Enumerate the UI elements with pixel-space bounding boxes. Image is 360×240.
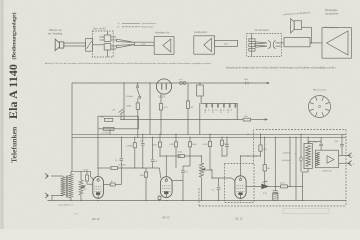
- connector pin wire d: [111, 39, 116, 41]
- wire bus drop to ground: [301, 186, 303, 200]
- svg-text:(Bedienungsanlage): (Bedienungsanlage): [11, 12, 18, 59]
- svg-text:Sprechleitungen: Sprechleitungen: [142, 22, 156, 25]
- wire grid V3 diagonal: [232, 178, 236, 181]
- svg-text:50kΩ: 50kΩ: [192, 144, 197, 146]
- wire output upper: [339, 154, 349, 156]
- wire grid V2 down: [145, 183, 147, 201]
- arc over arrow: [263, 181, 268, 182]
- svg-text:LP 3/1: LP 3/1: [159, 97, 166, 99]
- capacitor 0,1 grid V3: [217, 187, 221, 189]
- resistor screen V3: [264, 162, 266, 165]
- svg-text:Mikrofon mit: Mikrofon mit: [49, 29, 62, 32]
- wire cap 01 bottom: [218, 190, 220, 200]
- wire x301 lower: [300, 161, 302, 172]
- wire primary top: [307, 137, 309, 143]
- dashed box Vst 42: [247, 34, 282, 57]
- wire pot2 top: [201, 156, 203, 163]
- wire cable to speakers: [284, 37, 310, 46]
- wire B+ bus b: [287, 185, 302, 187]
- wire anode supply rail: [72, 133, 346, 135]
- svg-text:Telefunken: Telefunken: [10, 126, 19, 163]
- svg-text:200Ω: 200Ω: [126, 106, 131, 108]
- winding output: [306, 146, 311, 167]
- svg-text:EL 12: EL 12: [236, 217, 243, 221]
- wire terminal to ground: [51, 196, 53, 201]
- main speaker triangle: [327, 31, 348, 55]
- resistor R9: [221, 137, 223, 140]
- wire dashed shield left: [198, 188, 200, 206]
- resistor cathode V2: [159, 195, 161, 196]
- svg-text:def. Verstärkg.: def. Verstärkg.: [48, 32, 63, 35]
- resistor 0,1M: [134, 137, 136, 142]
- tone wiper: [202, 168, 206, 170]
- resistor meter shunt: [160, 94, 162, 103]
- wire pot top: [80, 171, 82, 180]
- winding secondary: [69, 174, 74, 198]
- wire V2 anode up: [165, 156, 167, 177]
- fuse bubble output: [300, 157, 302, 161]
- wire V1 anode feed: [97, 129, 99, 168]
- wire dashed shield bottom: [199, 205, 346, 207]
- wire elko top: [274, 186, 276, 190]
- wire sec top stub: [70, 171, 72, 174]
- svg-text:b: b: [353, 164, 354, 166]
- wire into tube grid: [90, 171, 92, 176]
- arrow B+ feed: [262, 184, 269, 189]
- amp A triangle: [163, 39, 171, 52]
- connector pin wire e: [111, 45, 116, 47]
- wire V1 side lead: [103, 184, 110, 186]
- transformer core box: [304, 144, 312, 169]
- capacitor filter C8: [273, 190, 278, 192]
- wire 5000 bottom: [86, 181, 88, 184]
- wire C5 link: [183, 165, 190, 167]
- wire screen V3 drop: [264, 137, 266, 162]
- dashed shield tube V3: [225, 164, 255, 203]
- wire drop x342 upper: [341, 134, 343, 144]
- wire drop x138: [137, 120, 139, 138]
- amplifier box B: [194, 36, 215, 54]
- svg-text:50k: 50k: [267, 168, 270, 170]
- svg-text:Abwicklung der Anlage nach dem: Abwicklung der Anlage nach dem Umbau; sä…: [226, 67, 336, 70]
- amp B triangle: [204, 38, 212, 51]
- capacitor 50u: [141, 143, 145, 145]
- wire left frame vertical: [71, 83, 73, 171]
- heater filament chain: [201, 96, 237, 120]
- monitor speaker driver: [294, 21, 301, 30]
- svg-text:4Ω: 4Ω: [191, 107, 194, 109]
- svg-text:a 2: a 2: [265, 181, 268, 183]
- tube V1 EF12: [93, 177, 104, 199]
- tube socket top view: [309, 96, 331, 118]
- amplifier box A: [154, 37, 174, 55]
- wire V2 side right: [172, 179, 183, 181]
- wire drop x188: [187, 120, 189, 135]
- capacitor C 50: [120, 158, 124, 160]
- wire anode V3 right: [241, 155, 261, 157]
- wire R7 low: [189, 160, 191, 166]
- signal arrow lower: [117, 45, 135, 48]
- tube V3 EL12: [235, 176, 246, 199]
- wire inner vertical Vst box: [251, 34, 253, 57]
- monitor speaker cone: [291, 19, 295, 33]
- svg-text:1MΩ: 1MΩ: [140, 175, 145, 177]
- resistor choke Dr: [281, 185, 288, 188]
- svg-text:2kΩ: 2kΩ: [100, 117, 104, 119]
- wire plug out lower: [276, 45, 282, 47]
- svg-text:~ 30k: ~ 30k: [140, 44, 146, 46]
- wire drop x124: [123, 83, 125, 120]
- capacitor tilted: [119, 109, 125, 114]
- dashed box Vorverstaerker: [92, 31, 113, 57]
- wire anode V1 right: [98, 167, 111, 169]
- wire fuse top: [137, 83, 139, 86]
- capacitor coupling C1: [111, 167, 117, 170]
- core line 2: [67, 176, 69, 198]
- wire drop x161: [160, 120, 162, 135]
- wire primary bottom: [307, 169, 309, 173]
- arrow to plug lower: [255, 45, 267, 47]
- wire box1 to connector: [93, 44, 104, 46]
- matching triangle: [327, 156, 334, 163]
- resistor 50k: [159, 134, 161, 142]
- wire drop x121: [120, 137, 122, 158]
- pilot lamp box: [197, 85, 204, 96]
- wire V3 to B+ arrow: [246, 185, 261, 187]
- plug jaw right: [273, 40, 275, 49]
- wire dashed enclosure left upper: [253, 130, 255, 164]
- wire +300V top rail: [72, 82, 267, 84]
- box heater rail meter: [243, 118, 250, 121]
- wire x301 upper: [300, 134, 302, 157]
- pot wiper arrow: [81, 186, 85, 188]
- resistor 200 ohm dropper: [137, 98, 139, 103]
- resistor grid V2: [145, 168, 147, 172]
- wire 5000 top: [86, 171, 88, 175]
- wire secondary top to right: [310, 141, 322, 143]
- svg-text:µ/2x50µF: µ/2x50µF: [282, 160, 291, 162]
- wire grid V3: [212, 177, 232, 179]
- wire C5 top: [182, 166, 184, 170]
- wire grid V3 drop: [211, 170, 213, 178]
- wire anode V2 right: [166, 155, 181, 157]
- wire wiper to grid V3: [202, 169, 213, 171]
- wire join C6: [222, 155, 227, 157]
- capacitor electrolytic block: [273, 193, 278, 200]
- wire primary bottom link: [302, 171, 308, 173]
- wire secondary top bend: [308, 142, 309, 144]
- wire pot bottom: [80, 195, 82, 201]
- connector pin wire b: [100, 39, 105, 41]
- wire heater rail arrow stub: [251, 119, 265, 121]
- potentiometer tone: [199, 163, 203, 177]
- arrow top rail end: [267, 82, 270, 84]
- tick top rail a: [245, 82, 247, 85]
- resistor network Rb: [103, 127, 114, 130]
- wire R6 bottom: [175, 150, 177, 168]
- relay contact box 2: [249, 44, 255, 47]
- capacitor coupling C4: [178, 155, 184, 158]
- wire pilot down: [200, 95, 202, 97]
- svg-text:0,1MΩ: 0,1MΩ: [126, 145, 132, 147]
- wire join: [160, 155, 166, 157]
- wire C5 bottom: [182, 173, 184, 200]
- wire cap50 top: [142, 134, 144, 143]
- stamp box faint: [283, 209, 329, 214]
- preamp box diagonal: [87, 41, 92, 49]
- connector top stub: [107, 31, 109, 35]
- legend line b rule: [122, 26, 140, 28]
- capacitor C6: [225, 144, 229, 146]
- wire drop x150: [149, 83, 151, 134]
- svg-text:µF 5000: µF 5000: [119, 165, 127, 167]
- output terminal upper: [348, 153, 352, 158]
- svg-text:Achtung! Läßt sich der Verstär: Achtung! Läßt sich der Verstärker nicht …: [45, 62, 211, 65]
- wire grid V2 diagonal: [160, 168, 161, 178]
- wire B+ bus a: [269, 185, 281, 187]
- wire drop x152: [152, 137, 154, 159]
- svg-text:0,3M: 0,3M: [169, 144, 174, 146]
- capacitor out a: [319, 143, 323, 145]
- connector lower contact: [104, 44, 111, 50]
- wire B+ feed x290: [289, 137, 291, 186]
- wire cable amp B to connector: [215, 40, 238, 46]
- wire coupling to grid V2: [117, 167, 146, 169]
- wire grid diagonal: [91, 177, 95, 181]
- wire grid feed: [72, 170, 91, 172]
- wire cable to amp A: [134, 42, 154, 45]
- connector bottom stub: [107, 50, 109, 57]
- fuse contact top: [136, 85, 138, 87]
- wire speaker down to cable: [310, 27, 312, 43]
- capacitor out b: [340, 143, 344, 145]
- wire box to heater rail: [120, 116, 122, 119]
- wire cap 01 top: [218, 178, 220, 187]
- wire to pot V3: [184, 155, 201, 157]
- wire link: [282, 42, 285, 44]
- output matching box: [315, 150, 338, 168]
- fuse element diagonal: [137, 88, 140, 97]
- relay contact box 1: [249, 39, 255, 42]
- wire C6 top: [226, 137, 228, 144]
- legend line a rule: [122, 22, 140, 24]
- svg-text:Vst 42 Anschl.: Vst 42 Anschl.: [255, 29, 270, 32]
- svg-text:Vorv. Vst 42: Vorv. Vst 42: [93, 27, 106, 30]
- wire 50k to anode join: [159, 154, 161, 156]
- svg-text:µ/Übertr.: µ/Übertr.: [283, 152, 291, 155]
- svg-text:Netzleitungen: Netzleitungen: [142, 26, 154, 29]
- svg-text:Läut.-Übertr. 1:7: Läut.-Übertr. 1:7: [58, 203, 74, 206]
- microphone cone: [55, 39, 59, 50]
- wire C6 bottom: [226, 147, 228, 156]
- wire drop x121 low: [120, 161, 122, 184]
- connector pin wire f: [111, 48, 116, 50]
- wire drop x321 lower: [320, 146, 322, 150]
- wire ground bottom rail: [48, 200, 347, 202]
- wire R8 bottom: [209, 163, 211, 170]
- wire primary drop: [301, 172, 303, 186]
- svg-text:100mA: 100mA: [126, 95, 133, 98]
- wire plug out upper: [276, 42, 282, 44]
- wire sec bottom to ground: [70, 198, 72, 201]
- wire output lower: [339, 162, 349, 164]
- connector pin wire a: [100, 36, 105, 38]
- svg-text:50 Ω: 50 Ω: [280, 182, 285, 184]
- decoupling network box: [98, 116, 139, 129]
- svg-text:1k: 1k: [111, 181, 113, 183]
- svg-text:0,3M: 0,3M: [203, 144, 208, 146]
- wire screen supply rail: [72, 136, 346, 138]
- wire drop x152 low: [152, 162, 154, 168]
- plug jaw left: [268, 40, 270, 49]
- resistor V1 cathode side: [110, 183, 115, 186]
- wire cable mic to preamp box: [64, 43, 86, 46]
- input terminal lower: [45, 193, 49, 198]
- wire R7 bottom: [189, 151, 191, 160]
- resistor R6: [175, 134, 177, 142]
- potentiometer volume: [79, 180, 83, 195]
- signal arrow upper: [117, 39, 135, 42]
- resistor R8: [209, 134, 211, 141]
- resistor anode feed V3: [260, 134, 262, 145]
- microphone driver: [60, 42, 64, 48]
- wire prim top: [61, 175, 63, 177]
- wire filter cap feed x275: [274, 137, 276, 186]
- wire box to rail: [109, 129, 111, 135]
- wire input upper: [51, 175, 61, 177]
- svg-text:100/70 W: 100/70 W: [322, 171, 331, 173]
- wire dashed bus top: [256, 129, 346, 131]
- wire fuse to heater rail: [137, 114, 139, 120]
- svg-text:Röhrensockel: Röhrensockel: [313, 88, 327, 91]
- arrow heater rail end: [265, 118, 268, 120]
- wire pot2 bottom: [201, 177, 203, 201]
- svg-text:~ 3(1): ~ 3(1): [222, 44, 228, 46]
- main loudspeaker box: [322, 28, 351, 59]
- input terminal upper: [45, 173, 49, 178]
- relay contact box 3: [249, 48, 255, 51]
- capacitor mid: [151, 159, 155, 161]
- output terminal lower: [348, 161, 352, 166]
- fuse contact bottom: [139, 96, 141, 98]
- svg-text:0,5 MΩ: 0,5 MΩ: [102, 133, 109, 135]
- wire side to drop: [115, 184, 121, 186]
- wire cap to box: [121, 115, 123, 117]
- wire prim bottom: [61, 195, 63, 197]
- wire V1 anode up: [97, 168, 99, 177]
- wire drop x342 lower: [341, 147, 343, 156]
- svg-text:1kΩ: 1kΩ: [263, 149, 267, 151]
- svg-text:EF 12: EF 12: [163, 215, 170, 219]
- capacitor C5: [181, 170, 185, 172]
- svg-text:Wiedergabe-: Wiedergabe-: [325, 9, 338, 12]
- wire input lower: [51, 195, 61, 197]
- wire dashed shield right: [345, 130, 347, 207]
- wire join R8: [210, 169, 212, 171]
- wire V3 anode up: [240, 156, 242, 176]
- preamp small box: [86, 39, 93, 52]
- svg-text:Geräte-Verst.: Geräte-Verst.: [194, 31, 208, 34]
- tick top rail b: [247, 82, 249, 85]
- svg-text:EF 12: EF 12: [93, 217, 100, 221]
- tube V2 EF12: [161, 177, 173, 198]
- winding primary: [61, 177, 66, 196]
- wire drop x321 upper: [320, 137, 322, 144]
- resistor network Ra: [104, 118, 112, 121]
- svg-text:Ela A 1140: Ela A 1140: [6, 64, 20, 119]
- wire pilot top: [199, 83, 201, 85]
- connector pin wire c: [111, 36, 116, 38]
- connector upper contact: [104, 35, 111, 41]
- wire cap50 bottom: [142, 146, 144, 168]
- wire x296 vertical: [295, 137, 297, 200]
- wire cable to speaker box: [310, 42, 322, 44]
- wire grid V2 in stub: [146, 167, 160, 169]
- core line 1: [65, 176, 67, 198]
- wire 5000 to tube: [87, 183, 93, 185]
- lamp 2x: [180, 82, 183, 85]
- coil matching: [316, 152, 319, 166]
- wire screen join: [264, 185, 266, 186]
- junction dots: [123, 82, 124, 83]
- svg-text:Lautsprecher: Lautsprecher: [325, 13, 339, 16]
- wire drop x200: [199, 103, 201, 134]
- resistor heater series: [187, 83, 189, 101]
- resistor R7: [189, 137, 191, 142]
- wire heater rail: [121, 119, 243, 121]
- svg-text:Verstärker Vst: Verstärker Vst: [155, 31, 170, 34]
- meter M1: [156, 79, 171, 94]
- wire speaker right: [302, 26, 312, 28]
- arrow to plug upper: [255, 42, 267, 44]
